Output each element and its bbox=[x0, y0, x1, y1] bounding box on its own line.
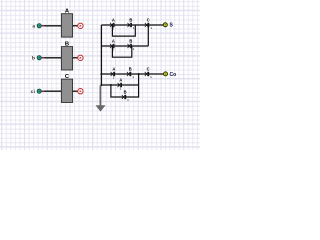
junction Co branch / Co loop bbox=[110, 84, 112, 86]
svg-text:B: B bbox=[129, 39, 132, 44]
output Co terminal (yellow) bbox=[164, 72, 168, 76]
svg-text:A: A bbox=[112, 18, 115, 23]
contact A (S main) bbox=[110, 18, 115, 31]
branch 2 riser bbox=[147, 25, 149, 46]
output indicator C (red) bbox=[78, 89, 83, 94]
Co branch (middle) bbox=[101, 84, 138, 86]
left rail bbox=[100, 25, 102, 86]
relay B body bbox=[61, 47, 72, 70]
wire a to relay A bbox=[41, 25, 61, 27]
S branch 2 bbox=[101, 45, 148, 47]
svg-text:C: C bbox=[147, 67, 150, 72]
wire ci to relay C bbox=[41, 90, 61, 92]
S loop 1 bbox=[112, 25, 135, 36]
junction S main / loop 1 bbox=[112, 24, 114, 26]
feed arrow (gray) bbox=[96, 86, 106, 112]
junction S branch 2 / loop 2 bbox=[112, 45, 114, 47]
S main line bbox=[101, 24, 163, 26]
wire relay C to output bbox=[73, 90, 78, 92]
output indicator B (red) bbox=[78, 55, 83, 60]
input terminal a (teal) bbox=[37, 24, 41, 28]
svg-text:A: A bbox=[119, 78, 122, 83]
svg-text:C: C bbox=[147, 18, 150, 23]
wire b to relay B bbox=[41, 57, 61, 59]
svg-text:b: b bbox=[32, 56, 35, 62]
contact B (Co main) bbox=[127, 67, 134, 80]
contact A (S branch 2) bbox=[110, 39, 115, 52]
svg-text:ci: ci bbox=[31, 89, 36, 95]
junction Co main / Co loop riser bbox=[138, 73, 140, 75]
wire relay A to output bbox=[73, 25, 78, 27]
contact B (S branch 2) bbox=[128, 39, 135, 52]
svg-text:B: B bbox=[124, 90, 127, 95]
Co main line bbox=[101, 73, 163, 75]
junction S main / branch 2 riser bbox=[147, 24, 149, 26]
svg-text:B: B bbox=[129, 67, 132, 72]
wire relay B to output bbox=[73, 57, 78, 59]
contact A (Co main) bbox=[111, 67, 116, 80]
svg-text:B: B bbox=[129, 18, 132, 23]
contact A (Co branch) bbox=[118, 78, 123, 91]
output S terminal (yellow) bbox=[163, 23, 167, 27]
contact B (S main) bbox=[128, 18, 135, 31]
Co loop bbox=[111, 74, 139, 97]
S loop 2 bbox=[112, 46, 131, 57]
svg-text:A: A bbox=[112, 67, 115, 72]
contact C (Co main) bbox=[145, 67, 152, 80]
svg-text:A: A bbox=[112, 39, 115, 44]
input terminal ci (teal) bbox=[37, 89, 41, 93]
input terminal b (teal) bbox=[37, 56, 41, 60]
contact C (S main) bbox=[145, 18, 152, 31]
junction rail / Co branch bbox=[100, 84, 102, 86]
svg-text:a: a bbox=[32, 25, 35, 30]
relay C body bbox=[61, 79, 72, 102]
output indicator A (red) bbox=[78, 23, 83, 28]
svg-text:Co: Co bbox=[170, 72, 177, 78]
contact B (Co loop) bbox=[122, 90, 129, 103]
relay A body bbox=[61, 14, 72, 37]
junction rail / Co main bbox=[100, 73, 102, 75]
